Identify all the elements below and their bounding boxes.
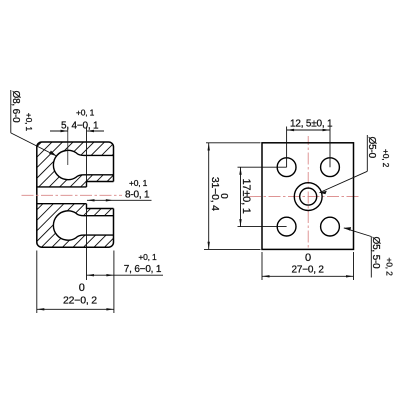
- svg-text:17±0, 1: 17±0, 1: [240, 179, 252, 214]
- bottom keyhole: [53, 211, 113, 240]
- svg-text:12, 5±0, 1: 12, 5±0, 1: [290, 118, 333, 129]
- dim 27: [261, 252, 263, 280]
- svg-text:8-0, 1: 8-0, 1: [125, 189, 150, 200]
- red centerline left view: [22, 194, 123, 196]
- top keyhole: [53, 150, 113, 179]
- dim 17: [240, 167, 242, 226]
- svg-text:Ø5-0: Ø5-0: [366, 137, 377, 159]
- hole top-left: [277, 158, 296, 177]
- center hole outer circle: [294, 183, 322, 211]
- notch: [87, 182, 114, 209]
- hole bottom-left: [277, 217, 296, 236]
- svg-text:5, 4−0, 1: 5, 4−0, 1: [61, 120, 99, 131]
- dim 31: [206, 142, 261, 144]
- center hole inner circle Ø5: [300, 188, 317, 205]
- hole center extension lines: [238, 127, 331, 227]
- section hatching: [0, 142, 220, 247]
- clamp slit: [37, 186, 87, 188]
- dim 5.4: [50, 130, 104, 132]
- dim 8 (notch): [87, 199, 152, 201]
- dim 12.5: [287, 129, 330, 131]
- hole top-right: [321, 158, 340, 177]
- svg-text:22−0, 2: 22−0, 2: [63, 295, 97, 307]
- svg-text:Ø8, 6-0: Ø8, 6-0: [10, 91, 21, 124]
- part outline: [37, 142, 114, 247]
- svg-text:27−0, 2: 27−0, 2: [292, 265, 325, 276]
- svg-text:0: 0: [218, 193, 229, 199]
- svg-text:+0, 1: +0, 1: [138, 252, 157, 262]
- dim 22: [36, 251, 38, 314]
- label Ø5,5: [370, 237, 372, 278]
- vertical centerline right view: [307, 136, 309, 248]
- svg-text:0: 0: [305, 252, 311, 264]
- svg-text:+0, 2: +0, 2: [381, 149, 391, 168]
- label Ø8,6: [10, 90, 12, 133]
- plate outline: [262, 143, 354, 250]
- label Ø5: [366, 135, 368, 171]
- hole bottom-right: [321, 217, 340, 236]
- svg-text:7, 6−0, 1: 7, 6−0, 1: [124, 264, 162, 275]
- svg-text:+0, 1: +0, 1: [76, 107, 95, 117]
- svg-text:+0, 2: +0, 2: [385, 258, 395, 277]
- svg-text:+0, 1: +0, 1: [129, 178, 148, 188]
- svg-text:+0, 1: +0, 1: [24, 113, 34, 132]
- svg-text:Ø5, 5-0: Ø5, 5-0: [370, 237, 381, 270]
- dim 7.6: [87, 274, 164, 276]
- extension lines left view: [67, 127, 69, 166]
- svg-text:0: 0: [79, 282, 85, 294]
